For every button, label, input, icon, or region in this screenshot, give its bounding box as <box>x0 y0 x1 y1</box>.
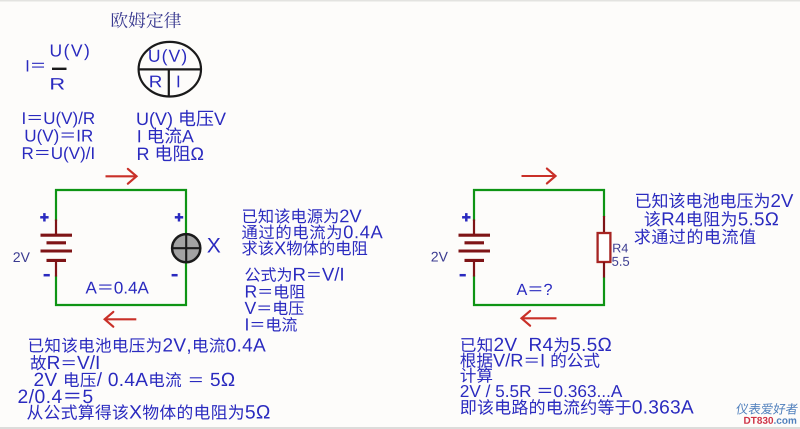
label ammeter A=? <box>517 284 552 295</box>
wire left circuit top <box>55 189 187 191</box>
minus mark right battery <box>460 274 466 277</box>
ohm circle horizontal divider <box>139 68 201 70</box>
resistor R4 <box>598 216 611 278</box>
formula I= (fraction left) <box>27 60 44 71</box>
top frame artifact line <box>0 0 800 2</box>
wire right circuit bottom <box>473 304 605 306</box>
legend U(V) voltage <box>137 110 226 129</box>
calc line so R=V/I <box>31 355 99 370</box>
legend R resistance <box>138 145 203 161</box>
formula numerator U(V) <box>51 44 89 60</box>
wire right circuit left lower <box>473 276 475 307</box>
ohm circle label I <box>178 76 180 88</box>
label ammeter A=0.4A <box>86 282 149 294</box>
note find X resistance <box>242 240 367 255</box>
note known source 2V <box>243 208 362 223</box>
ohm circle vertical divider <box>168 69 170 96</box>
legend I current <box>138 127 193 143</box>
calc line known 2V 0.4A <box>29 337 266 353</box>
note R4 is 5.5 ohm <box>645 211 778 227</box>
formula line I=U(V)/R <box>23 112 94 128</box>
note current 0.4A <box>242 224 383 239</box>
calc line result 5 ohm <box>27 404 269 420</box>
calc line 2V/5.5R <box>461 385 623 398</box>
watermark DT830.com <box>744 417 773 424</box>
label 5.5 <box>612 257 629 266</box>
current arrow bottom right circuit <box>522 311 557 326</box>
wire right circuit left upper <box>473 189 475 221</box>
wire left circuit left lower <box>55 276 57 307</box>
ohm circle outline <box>139 42 201 97</box>
current arrow bottom left circuit <box>105 312 137 327</box>
watermark 仪表爱好者 <box>736 403 799 414</box>
bottom frame artifact line <box>0 427 800 429</box>
note V legend <box>245 301 304 316</box>
label 2V left battery <box>14 252 30 262</box>
load X circle <box>172 234 200 262</box>
battery 2V right circuit <box>459 220 491 277</box>
calc line compute <box>461 367 493 382</box>
load X cross <box>171 233 201 263</box>
wire right circuit right lower <box>603 277 605 306</box>
label 2V right battery <box>432 252 448 262</box>
current arrow top right circuit <box>522 169 556 184</box>
wire left circuit left upper <box>55 189 57 221</box>
formula denominator R <box>51 78 64 89</box>
plus mark near X <box>175 213 183 221</box>
fraction bar <box>52 68 67 70</box>
title 欧姆定律 (Ohm law) <box>111 12 181 28</box>
plus mark right battery <box>462 213 470 221</box>
calc line formula V/R=I <box>460 352 599 367</box>
wire right circuit top <box>473 189 605 191</box>
label X <box>207 238 220 252</box>
current arrow top left circuit <box>106 169 137 184</box>
label R4 <box>613 244 628 253</box>
wire left circuit right <box>185 189 187 306</box>
note known battery 2V <box>636 193 793 209</box>
note R legend <box>246 284 305 299</box>
formula line U(V)=IR <box>26 129 93 145</box>
ohm circle label R <box>150 76 161 88</box>
note find current <box>635 229 756 245</box>
minus mark near X <box>172 274 178 277</box>
wire left circuit bottom <box>55 304 187 306</box>
battery 2V left circuit <box>41 220 73 277</box>
ohm circle label U(V) <box>149 49 186 65</box>
calc line known 2V R4 <box>461 337 611 352</box>
calc line result 0.363A <box>461 399 694 415</box>
note formula R=V/I <box>245 267 343 282</box>
calc line 2V/0.4A <box>34 372 234 387</box>
calc line 2/0.4=5 <box>18 389 92 403</box>
note I legend <box>246 317 297 332</box>
wire right circuit right upper <box>603 189 605 217</box>
minus mark left battery <box>44 274 50 277</box>
formula line R=U(V)/I <box>23 147 94 163</box>
plus mark left battery <box>40 213 48 221</box>
